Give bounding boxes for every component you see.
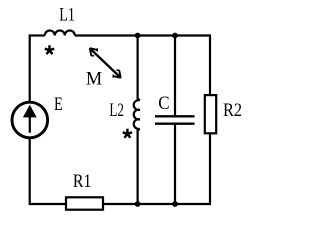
svg-text:L1: L1 bbox=[59, 6, 75, 26]
resistor R2 bbox=[205, 95, 216, 133]
wire bottom-right segment bbox=[104, 203, 210, 205]
junction bottom L2 bbox=[135, 201, 141, 207]
inductor L2 bbox=[134, 100, 140, 129]
wire right upper bbox=[209, 34, 211, 95]
svg-text:R2: R2 bbox=[223, 101, 242, 121]
junction top L2 bbox=[135, 33, 141, 39]
junction bottom C bbox=[172, 201, 178, 207]
branch C wire lower bbox=[174, 124, 176, 204]
branch L2 wire lower bbox=[138, 129, 140, 204]
wire top-left segment bbox=[30, 34, 45, 36]
branch L2 wire upper bbox=[138, 36, 140, 101]
capacitor C plates bbox=[155, 116, 195, 123]
svg-text:L2: L2 bbox=[109, 101, 124, 121]
junction top C bbox=[172, 33, 178, 39]
branch C wire upper bbox=[174, 36, 176, 117]
resistor R1 bbox=[66, 197, 103, 209]
wire bottom-left segment bbox=[30, 203, 65, 205]
wire top-right segment bbox=[75, 34, 210, 36]
polarity dot (asterisk) for L2 bbox=[123, 129, 132, 138]
wire right lower bbox=[209, 134, 211, 205]
svg-text:E: E bbox=[54, 95, 63, 115]
svg-text:M: M bbox=[86, 70, 102, 90]
mutual coupling arrow M bbox=[90, 49, 121, 78]
source E bbox=[12, 102, 48, 138]
svg-text:R1: R1 bbox=[73, 172, 92, 192]
inductor L1 bbox=[45, 31, 75, 36]
wire left lower bbox=[29, 138, 31, 205]
svg-text:C: C bbox=[158, 94, 169, 114]
source E arrow bbox=[29, 112, 31, 133]
polarity dot (asterisk) for L1 bbox=[45, 45, 54, 54]
wire left upper bbox=[29, 34, 31, 102]
